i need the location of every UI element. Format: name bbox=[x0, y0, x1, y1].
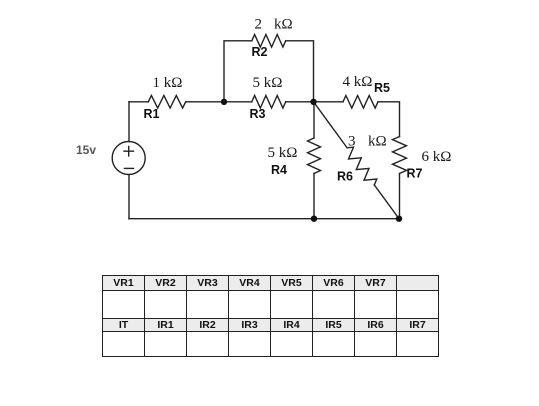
svg-text:6 kΩ: 6 kΩ bbox=[422, 149, 452, 165]
svg-text:4 kΩ: 4 kΩ bbox=[343, 74, 373, 90]
svg-text:15v: 15v bbox=[76, 143, 96, 157]
svg-text:R3: R3 bbox=[250, 107, 266, 121]
svg-text:R5: R5 bbox=[374, 81, 390, 95]
svg-text:1 kΩ: 1 kΩ bbox=[153, 75, 183, 91]
svg-text:2: 2 bbox=[255, 17, 263, 33]
svg-text:kΩ: kΩ bbox=[368, 134, 387, 150]
svg-text:R2: R2 bbox=[252, 45, 268, 59]
svg-text:kΩ: kΩ bbox=[274, 17, 293, 33]
svg-text:R4: R4 bbox=[271, 163, 287, 177]
svg-text:R6: R6 bbox=[337, 170, 353, 184]
svg-text:5 kΩ: 5 kΩ bbox=[253, 75, 283, 91]
svg-text:5 kΩ: 5 kΩ bbox=[268, 145, 298, 161]
svg-text:R7: R7 bbox=[407, 167, 423, 181]
svg-text:R1: R1 bbox=[144, 107, 160, 121]
svg-text:3: 3 bbox=[348, 134, 356, 150]
